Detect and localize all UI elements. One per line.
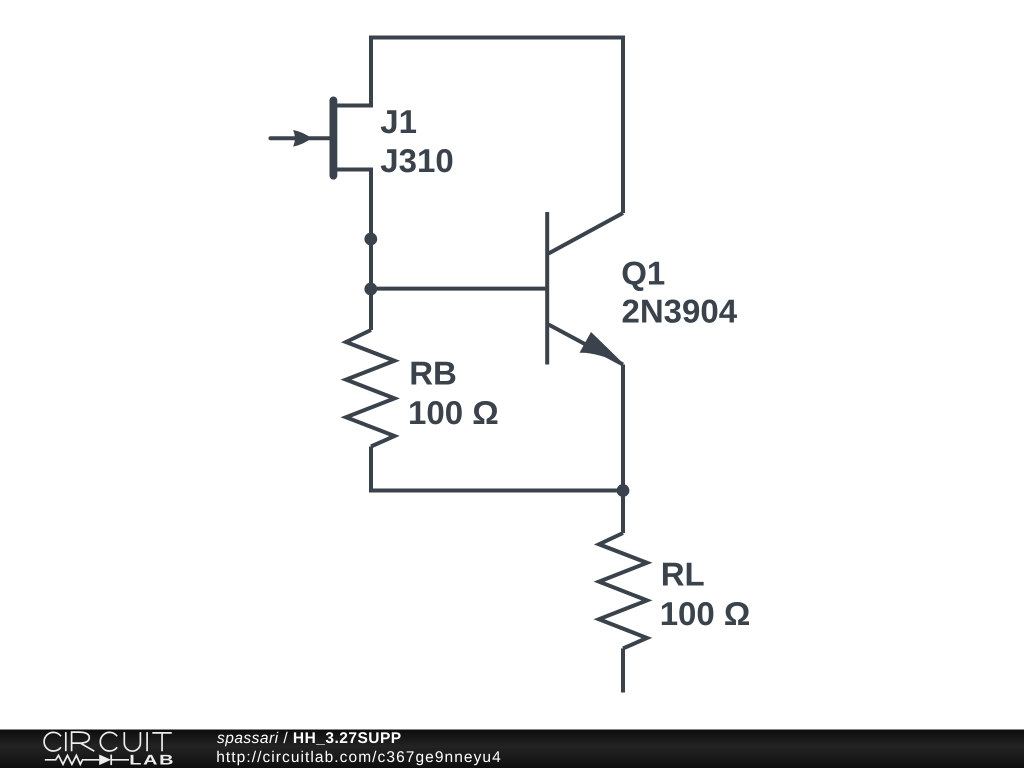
logo CIRCUIT lettering (thin geometric strokes) (44, 732, 172, 751)
svg-text:spassari / HH_3.27SUPP: spassari / HH_3.27SUPP (217, 730, 402, 747)
wire drain-to-collector top run (334, 38, 623, 214)
wire node to RL top (621, 491, 625, 534)
svg-text:100 Ω: 100 Ω (660, 595, 751, 632)
svg-text:http://circuitlab.com/c367ge9n: http://circuitlab.com/c367ge9nneyu4 (216, 749, 502, 766)
svg-text:LAB: LAB (129, 751, 175, 767)
transistor J1 gate bar (329, 100, 337, 175)
footer bar (0, 730, 1024, 768)
transistor Q1 emitter arrowhead (580, 332, 625, 364)
wire gate input (271, 136, 331, 140)
wire JFET source lead down to RB (334, 170, 371, 331)
svg-text:RL: RL (661, 556, 705, 593)
wire RB bottom to emitter node (371, 447, 623, 491)
transistor Q1 collector diagonal (549, 213, 624, 254)
wire base horizontal (371, 287, 547, 291)
resistor RL zigzag (599, 533, 647, 648)
svg-text:Q1: Q1 (621, 255, 665, 292)
svg-text:RB: RB (409, 354, 457, 391)
gate input arrowhead (293, 130, 311, 147)
svg-text:2N3904: 2N3904 (622, 292, 738, 329)
wire RL bottom stub (621, 648, 625, 692)
transistor Q1 emitter diagonal (549, 325, 624, 365)
logo diode triangle (99, 755, 111, 766)
svg-text:J1: J1 (380, 103, 417, 140)
svg-text:J310: J310 (380, 142, 453, 179)
logo wire-resistor-diode glyph (45, 755, 129, 766)
node dot A (JFET source terminal) (364, 233, 377, 246)
transistor Q1 base bar (545, 212, 549, 365)
svg-text:100 Ω: 100 Ω (408, 394, 499, 431)
wire emitter riser (621, 365, 625, 491)
resistor RB zigzag (346, 330, 395, 447)
node dot C (emitter / RL junction) (617, 484, 630, 497)
node dot B (base junction) (364, 283, 377, 296)
